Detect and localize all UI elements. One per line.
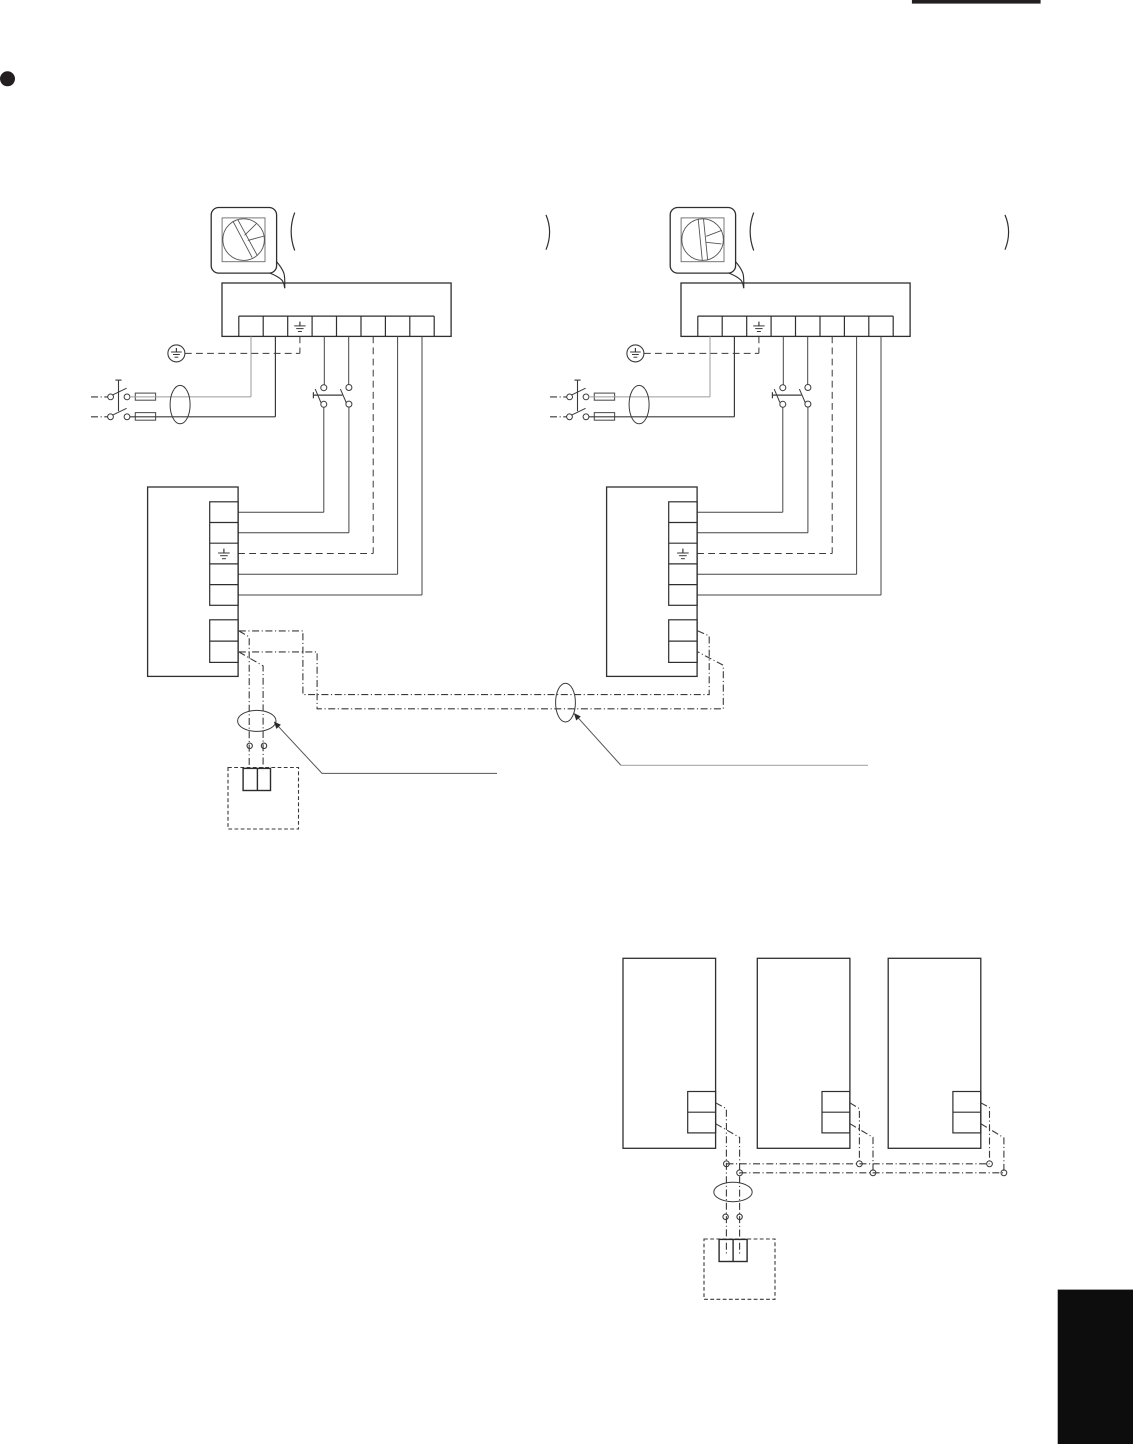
unit 1 control box earth symbol bbox=[218, 549, 230, 559]
unit 1 power wire N (to terminal 2) bbox=[130, 336, 276, 416]
group box 2 remote terminal cells bbox=[822, 1092, 850, 1133]
unit 1 label close parenthesis bbox=[546, 215, 550, 250]
unit 2 main switch (double pole) bbox=[567, 380, 589, 420]
bus junction node B2 bbox=[870, 1170, 876, 1176]
header black bar bbox=[912, 0, 1041, 4]
unit 1 power lead N bbox=[91, 416, 108, 418]
unit 1 wire aux to box terminal 2 bbox=[238, 407, 349, 533]
remote controller RC1 (dashed box) bbox=[228, 768, 299, 830]
indoor unit 2 callout bubble bbox=[670, 208, 744, 289]
group box 2 remote wire A (dash-dot) bbox=[850, 1103, 860, 1164]
group box 2 remote wire B (dash-dot) bbox=[850, 1124, 873, 1173]
unit 1 aux switch (ganged double pole) bbox=[313, 385, 352, 408]
group box 3 remote wire B (dash-dot) bbox=[981, 1124, 1004, 1173]
group box 3 remote wire A (dash-dot) bbox=[981, 1103, 990, 1164]
unit 1 remote wire A (dash-dot, to remote controller) bbox=[239, 631, 249, 771]
group bus wire A (dash-dot) bbox=[726, 1163, 989, 1165]
unit 2 control box terminal cells (5) bbox=[669, 502, 697, 606]
unit 2 power wire L (to terminal 1) bbox=[589, 336, 710, 397]
unit 1 earth terminal symbol bbox=[294, 322, 305, 332]
unit 2 wire aux to box terminal 1 bbox=[697, 407, 783, 512]
indoor unit 2 fan icon bbox=[681, 218, 724, 262]
unit 1 fuse F1 bbox=[135, 393, 155, 400]
unit 2 remote controller terminal cells (2) bbox=[669, 620, 697, 663]
bus junction node B1 bbox=[737, 1170, 743, 1176]
unit 1 power lead L bbox=[91, 396, 108, 398]
unit 1 label open parenthesis bbox=[291, 213, 295, 251]
group remote controller (dashed box) bbox=[704, 1239, 775, 1299]
unit 2 earth dashed wire bbox=[644, 336, 759, 353]
unit 2 power lead L bbox=[550, 396, 567, 398]
leader arrow to crossover cord bbox=[575, 714, 869, 766]
unit 1 power wire L (to terminal 1) bbox=[130, 336, 251, 397]
unit 2 power wire N (to terminal 2) bbox=[589, 336, 735, 416]
crossover wire B (unit1 to unit2, dash-dot) bbox=[239, 652, 724, 709]
unit 1 wire terminal 7 bbox=[238, 336, 398, 574]
group bus wire B (dash-dot) bbox=[740, 1172, 1004, 1174]
unit 1 wire terminal 5 bbox=[348, 336, 350, 384]
unit 1 main switch (double pole) bbox=[108, 380, 130, 420]
page corner black block bbox=[1058, 1290, 1133, 1444]
indoor unit 1 fan icon bbox=[222, 218, 265, 262]
bus junction node A2 bbox=[857, 1161, 863, 1167]
unit 2 fuse F2 bbox=[594, 413, 614, 421]
unit 2 wire terminal 4 bbox=[782, 336, 784, 384]
unit 1 control box bbox=[148, 487, 239, 676]
unit 2 power cord grommet bbox=[629, 385, 649, 423]
unit 1 power cord grommet bbox=[170, 385, 190, 423]
unit 2 earth wire terminal 6 (dashed) bbox=[697, 336, 832, 553]
unit 1 remote wire B (dash-dot, to remote controller) bbox=[239, 652, 263, 771]
unit 1 earth dashed wire bbox=[185, 336, 300, 353]
leader arrow to remote cord (unit 1) bbox=[275, 722, 498, 773]
group box 3 remote terminal cells bbox=[953, 1092, 981, 1133]
unit 1 control box terminal cells (5) bbox=[210, 502, 238, 606]
unit 2 label close parenthesis bbox=[1005, 215, 1009, 250]
unit 2 label open parenthesis bbox=[750, 213, 754, 251]
remote controller RC1 connector bbox=[243, 768, 270, 790]
group box 1 remote terminal cells bbox=[688, 1092, 716, 1133]
unit 2 wire terminal 7 bbox=[697, 336, 857, 574]
bus junction node A3 bbox=[987, 1161, 993, 1167]
indoor unit 1 terminal block bbox=[222, 283, 451, 336]
unit 1 remote controller terminal cells (2) bbox=[210, 620, 238, 663]
unit 2 wire terminal 8 bbox=[697, 336, 881, 595]
unit 2 earth terminal symbol bbox=[753, 322, 764, 332]
crossover cord grommet bbox=[556, 683, 576, 722]
unit 1 protective earth symbol bbox=[168, 345, 185, 362]
unit 1 earth wire terminal 6 (dashed) bbox=[238, 336, 373, 553]
unit 1 wire aux to box terminal 1 bbox=[238, 407, 324, 512]
unit 2 wire terminal 5 bbox=[807, 336, 809, 384]
group control box 2 bbox=[757, 958, 850, 1148]
unit 2 aux switch (ganged double pole) bbox=[772, 385, 811, 408]
group remote cord grommet bbox=[714, 1182, 752, 1201]
unit 2 fuse F1 bbox=[594, 393, 614, 400]
group box 1 remote wire A (dash-dot) bbox=[716, 1103, 727, 1254]
unit 2 protective earth symbol bbox=[627, 345, 644, 362]
group control box 3 bbox=[888, 958, 981, 1148]
bus junction node B3 bbox=[1001, 1170, 1007, 1176]
unit 1 fuse F2 bbox=[135, 413, 155, 421]
unit 2 control box bbox=[607, 487, 698, 676]
bus junction node A1 bbox=[724, 1161, 730, 1167]
group remote controller connector bbox=[719, 1239, 747, 1261]
group remote pin contacts bbox=[723, 1214, 742, 1219]
indoor unit 1 callout bubble bbox=[211, 208, 285, 289]
unit 1 wire terminal 4 bbox=[323, 336, 325, 384]
unit 2 wire aux to box terminal 2 bbox=[697, 407, 808, 533]
group box 1 remote wire B (dash-dot) bbox=[716, 1124, 740, 1254]
unit 2 power lead N bbox=[550, 416, 567, 418]
group control box 1 bbox=[623, 958, 716, 1148]
unit 2 control box earth symbol bbox=[677, 549, 689, 559]
crossover wire A (unit1 to unit2, dash-dot) bbox=[239, 631, 709, 695]
unit 1 wire terminal 8 bbox=[238, 336, 422, 595]
unit 1 remote cord grommet bbox=[238, 710, 276, 731]
indoor unit 2 terminal block bbox=[681, 283, 910, 336]
list bullet bbox=[1, 72, 15, 86]
remote wire pin contacts (unit 1) bbox=[247, 743, 267, 748]
